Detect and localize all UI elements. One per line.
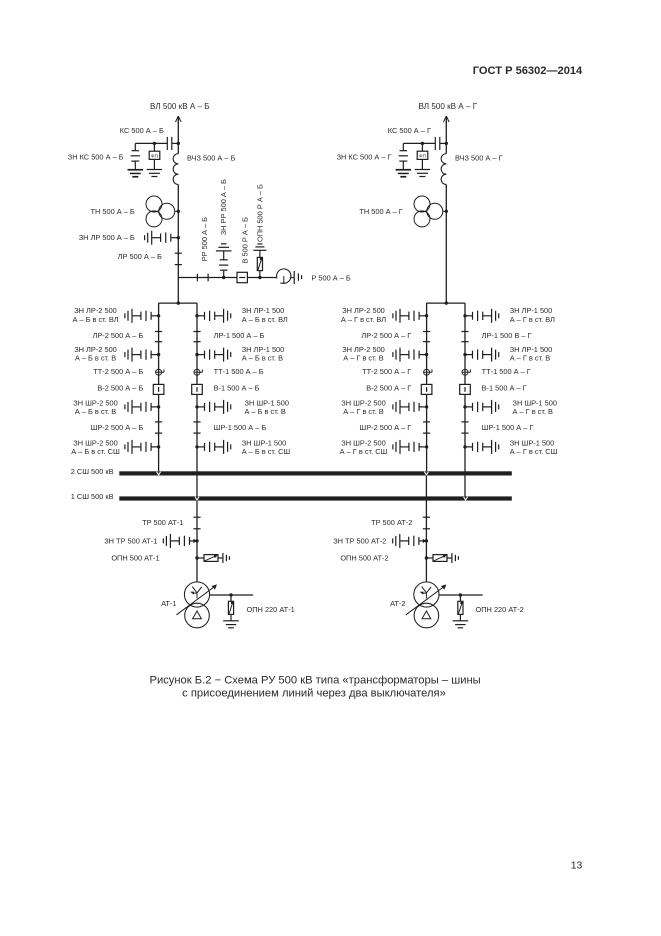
label ЛР-1 500 А – Б: [214, 331, 265, 340]
label 1 СШ 500 кВ: [71, 492, 114, 501]
node КС junction А – Г: [445, 142, 448, 145]
node ОПН 220 junction АТ-2: [459, 593, 462, 596]
disconnector РР 500 А – Б: [197, 274, 208, 282]
svg-text:ЛР-1 500 А – Б: ЛР-1 500 А – Б: [214, 331, 265, 340]
label 2 СШ 500 кВ: [71, 467, 114, 476]
node T junction А – Г: [445, 301, 448, 304]
grounding switch ЗН ЛР-1 500 А – Б в ст. ВЛ: [195, 309, 230, 323]
svg-text:ЗН ЛР-1 500: ЗН ЛР-1 500: [242, 306, 285, 315]
svg-text:ТН 500 А – Г: ТН 500 А – Г: [359, 207, 402, 216]
transformer ТН 500 А – Г: [414, 196, 448, 227]
label ЗН ЛР-2 500 Г в ст. ВЛ: [341, 306, 386, 324]
label ЛР 500 А – Б: [118, 252, 162, 261]
svg-text:Рисунок Б.2 − Схема РУ 500 кВ: Рисунок Б.2 − Схема РУ 500 кВ типа «тран…: [149, 675, 480, 687]
svg-text:ТТ-2 500 А – Г: ТТ-2 500 А – Г: [362, 367, 411, 376]
svg-text:А – Г в ст. В: А – Г в ст. В: [343, 353, 384, 362]
label ЗН ШР-1 500 Г в ст. В: [513, 399, 558, 416]
label ЗН ЛР-1 500 Б в ст. ВЛ: [242, 306, 288, 324]
transformer ТН 500 А – Б: [146, 196, 180, 227]
label ЗН ЛР-2 500 Б в ст. ВЛ: [72, 306, 118, 324]
svg-text:А – Г в ст. СШ: А – Г в ст. СШ: [340, 447, 388, 456]
caption line 2: [182, 688, 446, 700]
svg-text:ОПН 500 АТ-2: ОПН 500 АТ-2: [340, 554, 388, 563]
svg-text:ШР-2 500 А – Б: ШР-2 500 А – Б: [91, 423, 144, 432]
label ЗН ШР-2 500 Б в ст. СШ: [71, 439, 120, 456]
svg-text:А – Г в ст. В: А – Г в ст. В: [510, 353, 551, 362]
label ТТ-2 500 А – Б: [93, 367, 143, 376]
svg-text:А – Г в ст. ВЛ: А – Г в ст. ВЛ: [510, 315, 555, 324]
wire to АТ-2: [425, 558, 427, 582]
grounding switch ЗН ЛР-2 500 А – Г в ст. В: [393, 348, 428, 362]
grounding switch ЗН ЛР-1 500 А – Г в ст. ВЛ: [463, 309, 498, 323]
label ТТ-1 500 А – Г: [482, 367, 531, 376]
svg-text:В-1 500 А – Б: В-1 500 А – Б: [214, 383, 260, 392]
svg-text:А – Б в ст. В: А – Б в ст. В: [245, 407, 286, 416]
svg-text:АТ-2: АТ-2: [390, 599, 405, 608]
grounding switch ЗН ЛР-1 500 А – Г в ст. В: [463, 348, 498, 362]
wire above ВЧЗ А – Б: [177, 143, 179, 153]
ground under ФП box А – Б: [147, 170, 162, 177]
wire below ВЧЗ А – Б: [177, 185, 179, 212]
label ЗН ЛР-2 500 Г в ст. В: [342, 345, 385, 362]
label ШР-2 500 А – Г: [359, 423, 411, 432]
grounding switch ЗН ТР 500 АТ-1: [163, 534, 198, 548]
node КС junction А – Б: [177, 142, 180, 145]
current transformer ТТ-2 500 А – Б: [156, 369, 164, 375]
grounding switch ЗН ШР-2 500 А – Г в ст. В: [393, 400, 428, 414]
wire header bar А – Б: [159, 302, 197, 304]
wire column 2 upper А – Г: [426, 303, 428, 471]
capacitor КС 500 А – Б: [167, 137, 178, 150]
svg-text:Р 500 А – Б: Р 500 А – Б: [311, 273, 351, 282]
node ЗН КС junction А – Б: [153, 142, 156, 145]
bus connection marks: [157, 472, 468, 500]
wire ЗН ЛР to ЛР А – Б: [177, 238, 179, 254]
label ТН 500 А – Г: [359, 207, 402, 216]
label ЗН КС 500 А – Г: [337, 153, 392, 162]
node T junction А – Б: [177, 301, 180, 304]
svg-text:ТР 500 АТ-2: ТР 500 АТ-2: [371, 518, 412, 527]
label Р 500 А – Б: [311, 273, 351, 282]
label ЗН ШР-1 500 Г в ст. СШ: [510, 439, 558, 456]
filter ФП box А – Г: [417, 143, 428, 169]
reactor Р 500 А – Б: [277, 269, 295, 283]
disconnector ЛР-1 500 А – Б: [193, 332, 200, 342]
node ВЛ 500 кВ А – Б: [150, 102, 210, 111]
svg-text:ТТ-2 500 А – Б: ТТ-2 500 А – Б: [93, 367, 143, 376]
label ОПН 500 Р А – Б: [255, 184, 264, 242]
current transformer ТТ-1 500 А – Г: [462, 369, 470, 375]
svg-text:с присоединением линий через д: с присоединением линий через два выключа…: [182, 688, 446, 700]
svg-text:ЛР-1 500 В – Г: ЛР-1 500 В – Г: [482, 331, 532, 340]
svg-text:А – Б в ст. В: А – Б в ст. В: [75, 407, 116, 416]
label ЗН ЛР 500 А – Б: [79, 233, 135, 242]
grounding switch ЗН ШР-1 500 А – Г в ст. СШ: [463, 440, 498, 454]
label ЗН ЛР-1 500 Г в ст. ВЛ: [510, 306, 555, 324]
label ОПН 500 АТ-1: [111, 554, 159, 563]
svg-text:ОПН 500 Р А – Б: ОПН 500 Р А – Б: [255, 184, 264, 242]
circuit breaker В-1 500 А – Г: [460, 384, 471, 394]
svg-text:ОПН 220 АТ-1: ОПН 220 АТ-1: [247, 605, 295, 614]
grounding switch ЗН ШР-2 500 А – Б в ст. В: [125, 400, 160, 414]
grounding switch ЗН ЛР 500 А – Б: [145, 231, 180, 245]
svg-text:КС 500 А – Г: КС 500 А – Г: [388, 126, 431, 135]
wire column 2 upper А – Б: [158, 303, 160, 471]
grounding switch ЗН КС 500 А – Г: [396, 143, 412, 177]
label ЗН ТР 500 АТ-2: [333, 537, 386, 546]
label ШР-1 500 А – Г: [482, 423, 534, 432]
svg-text:ЗН КС 500 А – Г: ЗН КС 500 А – Г: [337, 153, 392, 162]
label ТН 500 А – Б: [91, 207, 135, 216]
circuit breaker В-2 500 А – Г: [421, 384, 432, 394]
label ВЧЗ 500 А – Б: [187, 154, 236, 163]
disconnector ЛР-1 500 А – Г: [461, 332, 468, 342]
line arrow to ВЛ 500 кВ А – Б: [176, 116, 182, 123]
svg-text:А – Г в ст. СШ: А – Г в ст. СШ: [510, 447, 558, 456]
svg-text:А – Б в ст. СШ: А – Б в ст. СШ: [242, 447, 291, 456]
svg-text:ЛР-2 500 А – Б: ЛР-2 500 А – Б: [93, 331, 144, 340]
ground right of ОПН 500 АТ-2: [452, 553, 459, 563]
wire column 1 upper А – Б: [196, 303, 198, 496]
label ЗН ЛР-1 500 Г в ст. В: [510, 345, 553, 362]
arrester ОПН 500 Р А – Б: [257, 250, 262, 277]
grounding switch ЗН ШР-1 500 А – Г в ст. В: [463, 400, 498, 414]
svg-text:ВЛ 500 кВ А – Г: ВЛ 500 кВ А – Г: [419, 102, 478, 111]
svg-text:АТ-1: АТ-1: [161, 599, 176, 608]
wire feeder above ТР 500 АТ-2: [425, 476, 427, 518]
label ЗН ШР-2 500 Г в ст. В: [341, 399, 386, 416]
label ОПН 220 АТ-1: [247, 605, 295, 614]
svg-text:РР 500 А – Б: РР 500 А – Б: [200, 217, 209, 261]
label ТТ-2 500 А – Г: [362, 367, 411, 376]
capacitor КС 500 А – Г: [435, 137, 446, 150]
svg-text:А – Б в ст. В: А – Б в ст. В: [242, 353, 283, 362]
autotransformer АТ-2: [414, 582, 439, 628]
svg-text:ЛР 500 А – Б: ЛР 500 А – Б: [118, 252, 162, 261]
svg-text:13: 13: [571, 860, 583, 871]
wire header bar А – Г: [427, 302, 465, 304]
label ЗН ШР-2 500 Г в ст. СШ: [340, 439, 388, 456]
current transformer ТТ-2 500 А – Г: [424, 369, 432, 375]
label АТ-1: [161, 599, 176, 608]
svg-text:ФП: ФП: [151, 154, 158, 159]
ground right of ОПН 500 АТ-1: [223, 553, 230, 563]
label КС 500 А – Б: [120, 126, 164, 135]
svg-text:А – Г в ст. В: А – Г в ст. В: [513, 407, 554, 416]
page number: [571, 860, 583, 871]
wire РР branch А – Б: [178, 277, 237, 279]
wire feeder above ТР 500 АТ-1: [196, 501, 198, 518]
svg-text:1 СШ 500 кВ: 1 СШ 500 кВ: [71, 492, 114, 501]
label ШР-1 500 А – Б: [214, 423, 267, 432]
arrester ОПН 220 АТ-2: [458, 595, 463, 621]
wire ЛР to T А – Б: [177, 253, 179, 303]
circuit breaker В-1 500 А – Б: [192, 384, 203, 394]
svg-text:ЗН РР 500 А – Б: ЗН РР 500 А – Б: [219, 179, 228, 235]
line arrow to ВЛ 500 кВ А – Г: [444, 116, 450, 123]
caption line 1: [149, 675, 480, 687]
inductor ВЧЗ 500 А – Б: [173, 154, 178, 185]
svg-text:В-1 500 А – Г: В-1 500 А – Г: [482, 383, 527, 392]
svg-text:ВЧЗ 500 А – Г: ВЧЗ 500 А – Г: [455, 154, 503, 163]
wire to АТ-1: [196, 558, 198, 582]
wire line drop А – Б: [177, 122, 179, 143]
wire КС branch А – Г: [403, 142, 435, 144]
grounding switch ЗН ЛР-2 500 А – Г в ст. ВЛ: [393, 309, 428, 323]
svg-text:ОПН 220 АТ-2: ОПН 220 АТ-2: [476, 605, 524, 614]
svg-text:А – Б в ст. ВЛ: А – Б в ст. ВЛ: [72, 315, 118, 324]
node ОПН 220 junction АТ-1: [229, 593, 232, 596]
grounding switch ЗН ШР-2 500 А – Г в ст. СШ: [393, 440, 428, 454]
svg-text:ВЧЗ 500 А – Б: ВЧЗ 500 А – Б: [187, 154, 236, 163]
label ВЧЗ 500 А – Г: [455, 154, 503, 163]
disconnector ЛР-2 500 А – Б: [155, 332, 162, 342]
ground under ОПН 220 АТ-1: [223, 621, 239, 628]
label ЗН ШР-2 500 Б в ст. В: [73, 399, 118, 416]
grounding switch ЗН ЛР-1 500 А – Б в ст. В: [195, 348, 230, 362]
ground under ОПН 220 АТ-2: [453, 621, 469, 628]
label ОПН 500 АТ-2: [340, 554, 388, 563]
wire column 1 upper А – Г: [464, 303, 466, 496]
circuit breaker В 500 Р А – Б: [237, 272, 247, 282]
svg-text:ЗН ЛР-1 500: ЗН ЛР-1 500: [510, 306, 553, 315]
label ЗН ЛР-2 500 Б в ст. В: [74, 345, 117, 362]
label ЗН ТР 500 АТ-1: [104, 537, 157, 546]
svg-text:ТН 500 А – Б: ТН 500 А – Б: [91, 207, 135, 216]
inductor ВЧЗ 500 А – Г: [441, 154, 446, 185]
svg-text:ТТ-1 500 А – Б: ТТ-1 500 А – Б: [214, 367, 264, 376]
disconnector ШР-2 500 А – Б: [155, 422, 162, 433]
grounding switch ЗН ШР-2 500 А – Б в ст. СШ: [125, 440, 160, 454]
label ЗН ШР-1 500 Б в ст. В: [245, 399, 290, 416]
label ЗН ЛР-1 500 Б в ст. В: [242, 345, 285, 362]
ground above ОПН 500 Р А – Б: [253, 244, 266, 250]
svg-text:ЗН ТР 500 АТ-2: ЗН ТР 500 АТ-2: [333, 537, 386, 546]
svg-text:ФП: ФП: [419, 154, 426, 159]
svg-text:ЛР-2 500 А – Г: ЛР-2 500 А – Г: [361, 331, 411, 340]
svg-text:ВЛ 500 кВ А – Б: ВЛ 500 кВ А – Б: [150, 102, 210, 111]
wire above ВЧЗ А – Г: [445, 143, 447, 153]
wire 220 кВ side АТ-1: [210, 594, 254, 596]
wire ТР to ЗН ТР АТ-1: [196, 517, 198, 558]
svg-text:ШР-2 500 А – Г: ШР-2 500 А – Г: [359, 423, 411, 432]
svg-text:ШР-1 500 А – Г: ШР-1 500 А – Г: [482, 423, 534, 432]
disconnector ШР-1 500 А – Г: [461, 422, 468, 433]
svg-text:А – Б в ст. ВЛ: А – Б в ст. ВЛ: [242, 315, 288, 324]
tap-changer arrow АТ-2: [406, 584, 447, 614]
label В-2 500 А – Б: [97, 383, 143, 392]
svg-text:ЗН ЛР-2 500: ЗН ЛР-2 500: [74, 306, 117, 315]
svg-text:ОПН 500 АТ-1: ОПН 500 АТ-1: [111, 554, 159, 563]
disconnector ТР 500 АТ-1: [193, 517, 200, 529]
wire ТР to ЗН ТР АТ-2: [425, 517, 427, 558]
label ТР 500 АТ-1: [142, 518, 183, 527]
label ШР-2 500 А – Б: [91, 423, 144, 432]
svg-text:2 СШ 500 кВ: 2 СШ 500 кВ: [71, 467, 114, 476]
svg-text:В 500 Р А – Б: В 500 Р А – Б: [240, 217, 249, 263]
label ЗН ШР-1 500 Б в ст. СШ: [242, 439, 291, 456]
ground right of Р 500 А – Б: [294, 271, 301, 284]
label ЛР-1 500 В – Г: [482, 331, 532, 340]
label В 500 Р А – Б: [240, 217, 249, 263]
grounding switch ЗН ЛР-2 500 А – Б в ст. ВЛ: [125, 309, 160, 323]
ground under ЗН КС 500 А – Б: [128, 170, 143, 177]
node ОПН Р junction А – Б: [258, 276, 261, 279]
autotransformer АТ-1: [184, 582, 209, 628]
disconnector ЛР 500 А – Б: [175, 253, 182, 264]
grounding switch ЗН ШР-1 500 А – Б в ст. СШ: [195, 440, 230, 454]
grounding switch ЗН ТР 500 АТ-2: [393, 534, 428, 548]
arrester ОПН 500 АТ-1: [195, 555, 223, 562]
grounding switch ЗН РР 500 А – Б: [216, 244, 232, 279]
wire ТН to ЗН ЛР А – Б: [177, 211, 179, 237]
svg-text:ГОСТ Р 56302—2014: ГОСТ Р 56302—2014: [473, 65, 583, 77]
label ЛР-2 500 А – Б: [93, 331, 144, 340]
label КС 500 А – Г: [388, 126, 431, 135]
grounding switch ЗН ЛР-2 500 А – Б в ст. В: [125, 348, 160, 362]
disconnector ШР-1 500 А – Б: [193, 422, 200, 433]
circuit breaker В-2 500 А – Б: [153, 384, 164, 394]
label ЗН КС 500 А – Б: [68, 153, 124, 162]
grounding switch ЗН КС 500 А – Б: [128, 143, 144, 177]
svg-text:В-2 500 А – Б: В-2 500 А – Б: [97, 383, 143, 392]
label ЗН РР 500 А – Б: [219, 179, 228, 235]
svg-text:В-2 500 А – Г: В-2 500 А – Г: [366, 383, 411, 392]
wire 220 кВ side АТ-2: [439, 594, 483, 596]
svg-text:А – Г в ст. В: А – Г в ст. В: [343, 407, 384, 416]
disconnector ЛР-2 500 А – Г: [423, 332, 430, 342]
svg-text:ЗН ЛР 500 А – Б: ЗН ЛР 500 А – Б: [79, 233, 135, 242]
svg-text:ШР-1 500 А – Б: ШР-1 500 А – Б: [214, 423, 267, 432]
svg-text:КС 500 А – Б: КС 500 А – Б: [120, 126, 164, 135]
svg-text:ТТ-1 500 А – Г: ТТ-1 500 А – Г: [482, 367, 531, 376]
svg-text:ЗН КС 500 А – Б: ЗН КС 500 А – Б: [68, 153, 124, 162]
label ТР 500 АТ-2: [371, 518, 412, 527]
svg-text:А – Г в ст. ВЛ: А – Г в ст. ВЛ: [341, 315, 386, 324]
bus 1 СШ 500 кВ: [119, 496, 512, 500]
wire below ВЧЗ А – Г: [445, 185, 447, 212]
wire В to ОПН А – Б: [247, 277, 276, 279]
svg-text:ТР 500 АТ-1: ТР 500 АТ-1: [142, 518, 183, 527]
node ЗН КС junction А – Г: [421, 142, 424, 145]
label АТ-2: [390, 599, 405, 608]
label ОПН 220 АТ-2: [476, 605, 524, 614]
bus 2 СШ 500 кВ: [119, 471, 512, 475]
grounding switch ЗН ШР-1 500 А – Б в ст. В: [195, 400, 230, 414]
filter ФП box А – Б: [149, 143, 160, 169]
label РР 500 А – Б: [200, 217, 209, 261]
svg-text:ЗН ЛР-2 500: ЗН ЛР-2 500: [342, 306, 385, 315]
label В-1 500 А – Г: [482, 383, 527, 392]
svg-text:А – Б в ст. В: А – Б в ст. В: [75, 353, 116, 362]
header ГОСТ Р 56302—2014: [473, 65, 583, 77]
label ТТ-1 500 А – Б: [214, 367, 264, 376]
label В-1 500 А – Б: [214, 383, 260, 392]
disconnector ШР-2 500 А – Г: [423, 422, 430, 433]
arrester ОПН 500 АТ-2: [425, 555, 452, 562]
ground under ЗН КС 500 А – Г: [396, 170, 411, 177]
wire ТН to T А – Г: [445, 211, 447, 303]
disconnector ТР 500 АТ-2: [423, 517, 430, 529]
wire line drop А – Г: [445, 122, 447, 143]
label ЛР-2 500 А – Г: [361, 331, 411, 340]
ground under ФП box А – Г: [415, 170, 430, 177]
label В-2 500 А – Г: [366, 383, 411, 392]
arrester ОПН 220 АТ-1: [228, 595, 233, 621]
svg-text:А – Б в ст. СШ: А – Б в ст. СШ: [71, 447, 120, 456]
current transformer ТТ-1 500 А – Б: [194, 369, 202, 375]
svg-text:ЗН ТР 500 АТ-1: ЗН ТР 500 АТ-1: [104, 537, 157, 546]
tap-changer arrow АТ-1: [177, 584, 218, 614]
wire КС branch А – Б: [135, 142, 167, 144]
node ВЛ 500 кВ А – Г: [419, 102, 478, 111]
